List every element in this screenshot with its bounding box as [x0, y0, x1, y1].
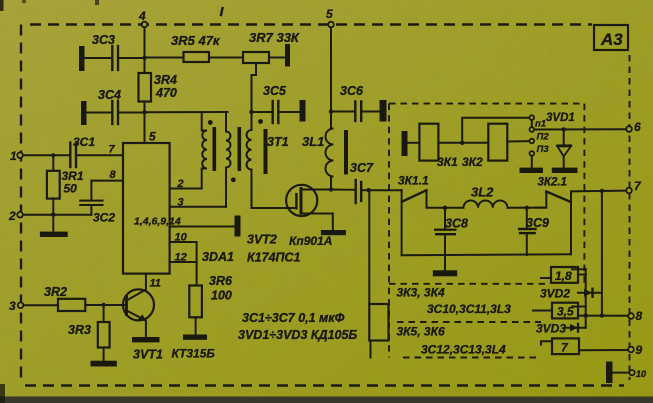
diode 3VD3: [536, 322, 586, 336]
tap box 1,8: [541, 267, 578, 283]
jumper contact circle row3: [530, 139, 535, 144]
wire 3R4 bottom to IC pin 5: [144, 102, 146, 144]
node junction 3C9 tap: [525, 206, 529, 210]
relay coil 3K2: [462, 124, 507, 169]
pin 11 label: [150, 278, 161, 290]
jumper contact circle row4: [530, 151, 535, 156]
wire 3K2.1 fixed contact column: [570, 191, 572, 254]
svg-text:470: 470: [155, 86, 177, 100]
node junction 3C7 / screen column: [367, 188, 371, 192]
svg-text:3C5: 3C5: [263, 84, 287, 98]
svg-text:5: 5: [149, 130, 156, 144]
svg-text:50: 50: [64, 182, 78, 196]
svg-text:3К2: 3К2: [462, 155, 483, 169]
svg-text:3C7: 3C7: [350, 161, 374, 175]
diode 3VD1: [546, 112, 575, 168]
svg-text:П2: П2: [537, 132, 550, 143]
svg-text:2: 2: [8, 209, 16, 223]
wire 3R6 to ground: [195, 317, 197, 334]
svg-text:3: 3: [178, 197, 184, 209]
wire contact row4 to ground: [531, 156, 533, 168]
screen bar left of 3C4: [81, 101, 87, 125]
svg-text:100: 100: [211, 289, 232, 303]
filter bottom bus wire: [402, 254, 571, 255]
node junction diode 3VD1 tap: [562, 127, 566, 131]
ground bar below 3R3: [91, 361, 117, 367]
transistor 3VT2 (MOSFET) body circle: [286, 185, 317, 216]
svg-text:10: 10: [636, 369, 646, 379]
svg-text:3VD1: 3VD1: [546, 112, 575, 124]
note line diode types: [238, 328, 357, 342]
screen bar right of 3C5: [300, 100, 306, 122]
svg-text:10: 10: [175, 232, 188, 244]
pin 2 wire to transformer W1 bottom: [170, 188, 202, 190]
tap box 3,5: [533, 303, 578, 319]
svg-text:3К2.1: 3К2.1: [538, 177, 567, 189]
wire IC pin 8 to 3C2: [91, 181, 123, 200]
screen bar left of relay 3K1: [402, 131, 408, 156]
pin 7 label: [109, 144, 116, 156]
label 3K1.1: [398, 174, 429, 188]
label 3VT2: [247, 233, 277, 247]
svg-text:3: 3: [9, 299, 16, 313]
wire 3R3 to ground: [103, 348, 105, 361]
svg-text:12: 12: [175, 252, 187, 264]
capacitor 3C7: [331, 161, 374, 203]
photo edge dark corner bottom-left: [0, 384, 5, 403]
svg-text:3C2: 3C2: [93, 211, 115, 225]
screen column tail: [370, 341, 372, 358]
pin 5 label: [149, 130, 156, 144]
svg-text:11: 11: [150, 278, 161, 290]
terminal 9: [628, 343, 642, 357]
node junction 3C4 line: [142, 110, 146, 114]
label P3: [537, 144, 550, 155]
outer dashed enclosure frame right: [629, 55, 631, 380]
contact 3K2.1 pivot riser: [535, 192, 546, 208]
capacitor 3C4: [87, 88, 145, 124]
resistor 3R1: [47, 155, 84, 198]
fold tick mark 1: [221, 8, 223, 15]
ground bar below 3C8: [433, 255, 457, 276]
svg-text:3L2: 3L2: [471, 185, 494, 200]
wire box 3,5 top corner to vertical A: [572, 306, 586, 308]
transformer 3T1 core bar: [264, 129, 268, 174]
capacitor 3C3: [85, 33, 145, 70]
label 3L1: [302, 134, 324, 149]
svg-text:3C12,3C13,3L4: 3C12,3C13,3L4: [421, 343, 506, 357]
3VT2 gate bar: [295, 193, 297, 210]
3VT1 collector: [127, 274, 146, 301]
wire bus 3C4 junction to transformer tops: [145, 111, 228, 113]
node junction 3C6: [329, 109, 333, 113]
wire 3K1 to 3K2: [438, 142, 488, 144]
label KT315B: [172, 347, 216, 361]
svg-text:A3: A3: [600, 30, 623, 49]
svg-text:3C1: 3C1: [73, 135, 95, 149]
label P2: [537, 132, 550, 143]
svg-text:3VD2: 3VD2: [540, 287, 570, 301]
wire 3T1 secondary to 3VT2 gate: [252, 207, 297, 209]
inductor 3L2: [463, 185, 507, 208]
wire contact to terminal 7: [571, 190, 626, 193]
relay block dashed box top: [389, 103, 584, 105]
node junction 3R1/terminal2 wire: [51, 213, 55, 217]
label KP901A: [289, 234, 332, 248]
svg-text:3VT2: 3VT2: [247, 233, 277, 247]
jumper contact circle P1 top: [530, 115, 535, 120]
node junction vertical B top: [600, 189, 604, 193]
svg-text:3R2: 3R2: [44, 285, 67, 299]
winding dot W1: [208, 120, 213, 125]
svg-text:8: 8: [636, 309, 643, 323]
resistor 3R6: [189, 274, 233, 317]
pin 3 label: [178, 197, 184, 209]
node junction B on terminal-8 wire: [600, 313, 604, 317]
relay block dashed box right: [583, 104, 585, 284]
photo edge dark corner top-left: [0, 0, 99, 11]
svg-text:3Т1: 3Т1: [267, 135, 289, 149]
dashed separator row 2: [397, 321, 541, 323]
node junction 3C5 tap: [249, 110, 253, 114]
winding dot W2 bottom: [231, 177, 236, 182]
svg-text:К174ПС1: К174ПС1: [247, 251, 301, 265]
svg-text:3C3: 3C3: [92, 33, 115, 47]
transformer core bar 1: [213, 127, 217, 171]
wire 3K1.1 to filter: [427, 190, 464, 208]
IC name label 3DA1 K174PS1: [202, 250, 301, 265]
label 3T1: [267, 135, 289, 149]
3VT2 drain wire: [301, 189, 331, 191]
svg-text:1: 1: [10, 149, 17, 163]
screen connector rectangle: [369, 304, 388, 341]
bar terminating pins 1,4,6,9,14: [235, 216, 241, 237]
transistor 3VT1 body circle: [123, 289, 154, 320]
svg-text:п1: п1: [535, 119, 546, 130]
capacitor 3C9: [518, 208, 549, 255]
outer dashed enclosure frame left: [20, 25, 22, 383]
3VT2 channel bar: [300, 187, 303, 215]
capacitor 3C8: [434, 208, 468, 255]
ground bar below 3VD1: [552, 168, 578, 173]
svg-text:3VT1: 3VT1: [133, 348, 163, 362]
terminal 2: [8, 209, 23, 223]
svg-text:3К1.1: 3К1.1: [398, 174, 429, 188]
svg-text:3R7 33К: 3R7 33К: [249, 30, 300, 45]
jumper link P1: [531, 120, 533, 127]
note line capacitors values: [242, 311, 345, 325]
label P1: [535, 119, 546, 130]
pin 12 wire: [170, 261, 197, 263]
node junction coil/drain/3C7: [329, 187, 333, 191]
svg-text:5: 5: [326, 7, 333, 21]
screen column wire from 3C7 down: [368, 190, 370, 304]
ground bar below jumper column: [520, 168, 544, 173]
terminal 6: [626, 120, 641, 134]
block designator box A3: [594, 25, 628, 50]
pins 1,4,6,9,14 common wire: [170, 226, 235, 228]
resistor 3R2: [44, 285, 85, 311]
dashed separator row 1: [389, 283, 545, 285]
svg-text:8: 8: [110, 169, 117, 181]
pin 8 label: [110, 169, 117, 181]
svg-text:7: 7: [109, 144, 116, 156]
svg-text:КТ315Б: КТ315Б: [172, 347, 216, 361]
wire 3R7 bottom tap down to 3T1 primary: [252, 63, 257, 130]
contact 3K1.1 arm: [402, 190, 426, 201]
terminal 1: [10, 149, 23, 163]
transformer 3T1 winding W3: [247, 130, 252, 208]
wire tap 7 to terminal 9: [579, 349, 628, 351]
pin 2 label: [177, 178, 184, 190]
wire row2 to terminal 6: [534, 128, 626, 130]
wire 3C1 to IC pin 7: [77, 154, 123, 156]
transformer winding W2 (secondary, bulge right): [226, 112, 231, 207]
svg-text:9: 9: [636, 343, 643, 357]
label 3VT1: [133, 348, 163, 362]
capacitor 3C2: [79, 200, 115, 225]
node junction 3C3/3R5: [142, 56, 146, 60]
wire terminal 5 down to 3C6: [330, 27, 332, 128]
resistor 3R3: [68, 305, 110, 348]
svg-text:3R4: 3R4: [154, 73, 177, 87]
jumper contact circle row2: [530, 127, 535, 132]
relay coil 3K1: [408, 124, 459, 169]
svg-text:3К5, 3К6: 3К5, 3К6: [397, 325, 445, 339]
svg-text:6: 6: [634, 120, 641, 134]
pin 10 wire: [170, 241, 197, 243]
label 3C10,3C11,3L3: [427, 302, 511, 316]
wire box 1,8 to vertical A: [572, 269, 586, 274]
svg-text:2: 2: [177, 178, 184, 190]
terminal 3: [9, 299, 23, 313]
screen bar right of 3R7: [285, 44, 290, 67]
wire terminal 3 to 3R2: [23, 304, 58, 306]
dashed separator row 3: [403, 357, 541, 359]
pin 3 wire to transformer W2 bottom: [170, 206, 226, 208]
svg-text:3C6: 3C6: [340, 84, 364, 98]
wire terminal1 to 3C1: [23, 154, 70, 156]
relay block dashed box left: [388, 104, 390, 358]
svg-text:3C1÷3C7 0,1 мкФ: 3C1÷3C7 0,1 мкФ: [242, 311, 345, 325]
coil 3L1 core bar: [344, 130, 348, 175]
3VT1 emitter with arrow: [127, 311, 146, 338]
ground bar below 3VT2 source: [321, 230, 346, 235]
wire 3L2 to 3K2.1: [508, 207, 547, 209]
wire 3R2 to 3VT1 base: [85, 304, 126, 306]
wire terminal 4 down: [144, 27, 146, 73]
resistor 3R7: [243, 30, 300, 63]
chassis bar at terminal 10: [606, 362, 629, 384]
svg-text:1,4,6,9,14: 1,4,6,9,14: [134, 216, 181, 228]
terminal 4: [138, 9, 147, 27]
svg-text:3C8: 3C8: [445, 217, 468, 231]
wire 3C7 to contact 3K1.1: [369, 189, 402, 191]
svg-text:Кп901А: Кп901А: [289, 234, 332, 248]
capacitor 3C5: [252, 84, 300, 123]
node junction at 3R1 top: [51, 153, 55, 157]
svg-text:3L1: 3L1: [302, 134, 324, 149]
label 3C12,3C13,3L4: [421, 343, 506, 357]
winding dot 3T1: [258, 119, 263, 124]
svg-text:3К3, 3К4: 3К3, 3К4: [397, 286, 445, 300]
svg-text:3R6: 3R6: [209, 274, 233, 288]
terminal 5: [326, 7, 334, 27]
wire 3K2 to contact P2: [507, 140, 529, 142]
screen bar right of 3C6: [380, 100, 387, 122]
node junction 3R3 tap: [101, 303, 105, 307]
label 3K3, 3K4: [397, 286, 445, 300]
svg-text:3VD3: 3VD3: [536, 322, 566, 336]
svg-text:3C4: 3C4: [98, 88, 121, 102]
resistor 3R5: [145, 33, 244, 62]
label 3K5, 3K6: [397, 325, 445, 339]
coil 3L1: [326, 129, 334, 190]
outer dashed enclosure frame top: [30, 23, 592, 25]
svg-text:3VD1÷3VD3 КД105Б: 3VD1÷3VD3 КД105Б: [238, 328, 357, 342]
pin 10 label: [175, 232, 188, 244]
svg-text:3К1: 3К1: [437, 155, 458, 169]
svg-text:1,8: 1,8: [555, 269, 572, 283]
svg-text:4: 4: [138, 9, 146, 23]
transformer core bar 2: [238, 127, 242, 171]
3VT2 source wire to ground: [301, 214, 333, 231]
diode 3VD2: [540, 287, 602, 301]
capacitor 3C6: [331, 84, 380, 121]
wire terminal 2 to 3C2 bottom: [23, 214, 92, 216]
svg-text:3R3: 3R3: [68, 323, 91, 337]
screen bar left of 3C3: [79, 46, 85, 71]
pins 1,4,6,9,14 label: [134, 216, 181, 228]
terminal 10: [629, 369, 646, 379]
wire tap 3,5 to terminal 8: [578, 315, 628, 317]
photo edge dark band bottom: [0, 397, 653, 403]
resistor 3R4: [139, 73, 177, 102]
contact 3K1.1 pivot line: [401, 190, 403, 255]
transformer winding W1 (primary, left): [202, 112, 207, 189]
label 3K2.1: [538, 177, 567, 189]
ground bar below 3VT1 emitter: [132, 337, 160, 342]
ground bar below 3R6: [183, 335, 207, 340]
capacitor 3C1: [70, 135, 95, 167]
svg-text:П3: П3: [537, 144, 550, 155]
vertical B wire: [601, 191, 603, 316]
vertical A wire: [585, 269, 587, 327]
svg-text:3C10,3C11,3L3: 3C10,3C11,3L3: [427, 302, 511, 316]
3VT1 base bar: [125, 295, 128, 316]
terminal 7: [626, 179, 642, 193]
wire pins 10,12 down to 3R6: [196, 242, 198, 286]
contact 3K2.1 arm: [546, 192, 570, 202]
IC 3DA1 body: [123, 143, 170, 274]
svg-text:3R5 47к: 3R5 47к: [171, 33, 221, 48]
node junction A on terminal-8 wire: [584, 313, 588, 317]
svg-text:3C9: 3C9: [526, 216, 549, 230]
tap box 7: [541, 338, 579, 354]
wire 3R1 bottom to ground: [52, 199, 54, 232]
node junction relay bus riser: [460, 118, 529, 145]
svg-text:3DA1: 3DA1: [202, 250, 234, 264]
ground bar below 3R1: [40, 232, 68, 237]
outer dashed enclosure frame bottom: [25, 384, 624, 386]
terminal 8: [628, 309, 642, 323]
pin 12 label: [175, 252, 187, 264]
node junction 3C8 tap: [443, 206, 447, 210]
